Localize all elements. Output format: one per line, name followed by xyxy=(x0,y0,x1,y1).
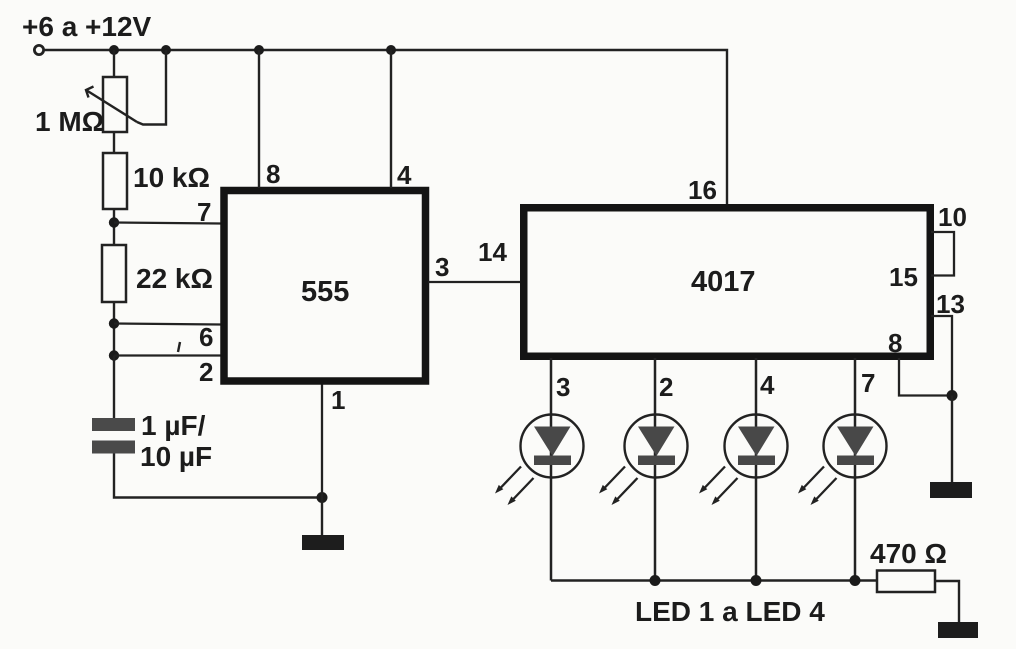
wire R2 to node7 xyxy=(113,209,115,246)
svg-text:8: 8 xyxy=(266,159,280,189)
svg-text:470 Ω: 470 Ω xyxy=(870,538,947,569)
svg-text:1: 1 xyxy=(331,385,345,415)
op: IC1 555 box xyxy=(224,191,426,382)
svg-text:15: 15 xyxy=(889,262,918,292)
svg-text:8: 8 xyxy=(888,328,902,358)
LED D3 xyxy=(699,358,788,581)
junction node2 xyxy=(109,350,119,360)
junction pin4 xyxy=(386,45,396,55)
wire C1 to ground node xyxy=(114,454,322,498)
ground GND2 xyxy=(930,482,972,498)
wire node2 to C1 xyxy=(113,356,115,420)
svg-text:13: 13 xyxy=(936,289,965,319)
svg-text:14: 14 xyxy=(478,237,507,267)
svg-text:10: 10 xyxy=(938,202,967,232)
junction bus-LED3 xyxy=(751,575,762,586)
wire node to ground2 xyxy=(951,396,953,485)
svg-text:3: 3 xyxy=(556,372,570,402)
LED2 arrow a xyxy=(599,467,625,494)
wire rail to potentiometer xyxy=(113,50,115,78)
svg-text:16: 16 xyxy=(688,175,717,205)
LED D1 xyxy=(495,358,584,581)
LED4 arrow b xyxy=(811,478,837,505)
wire node7 to 555 pin7 xyxy=(114,223,221,224)
LED D2 xyxy=(599,358,688,581)
svg-text:7: 7 xyxy=(197,197,211,227)
junction pin8 xyxy=(254,45,264,55)
pin 13 stub xyxy=(931,316,952,396)
wire R3 to node6 xyxy=(113,302,115,356)
svg-text:+6 a +12V: +6 a +12V xyxy=(22,11,152,42)
junction node6 xyxy=(109,318,119,328)
wire node to ground1 xyxy=(321,498,323,538)
junction node-gnd1 xyxy=(317,492,328,503)
LED4 circle xyxy=(824,415,887,478)
wire pin7 through LED4 xyxy=(854,358,857,581)
tick mark xyxy=(178,342,180,352)
capacitor C1 bottom plate xyxy=(92,441,135,454)
junction bus-LED4 xyxy=(850,575,861,586)
wire node2 to 555 pin2 xyxy=(114,354,221,356)
LED4 arrow a xyxy=(798,467,824,494)
svg-text:4: 4 xyxy=(397,160,412,190)
svg-text:555: 555 xyxy=(301,276,349,308)
LED4 triangle xyxy=(837,427,874,457)
junction node7 xyxy=(109,217,119,227)
svg-text:2: 2 xyxy=(199,357,213,387)
resistor R2 10 kΩ xyxy=(103,153,127,209)
wire 4017 pin8 to node xyxy=(899,358,952,396)
wire R4 to ground3 xyxy=(935,581,959,624)
svg-text:2: 2 xyxy=(659,372,673,402)
svg-text:10 kΩ: 10 kΩ xyxy=(133,162,210,193)
LED2 triangle xyxy=(638,427,675,457)
LED3 circle xyxy=(725,415,788,478)
wire 555 pin8 xyxy=(258,50,260,188)
svg-text:4017: 4017 xyxy=(691,266,756,298)
svg-text:7: 7 xyxy=(861,368,875,398)
potentiometer wiper arrow xyxy=(86,87,137,123)
svg-text:6: 6 xyxy=(199,322,213,352)
IC2 4017 box xyxy=(524,208,931,357)
pin 10-15 stub xyxy=(931,232,954,276)
junction bus-LED2 xyxy=(650,575,661,586)
LED1 arrow a xyxy=(495,467,521,494)
wire pin2 through LED2 xyxy=(654,358,657,581)
potentiometer P1 1 MΩ body xyxy=(103,77,127,132)
LED3 arrow a xyxy=(699,467,725,494)
wire 555 pin1 down xyxy=(321,384,323,498)
junction wiper xyxy=(161,45,171,55)
svg-text:10 µF: 10 µF xyxy=(140,441,212,472)
capacitor C1 top plate xyxy=(92,418,135,431)
svg-text:4: 4 xyxy=(760,370,775,400)
svg-text:1 MΩ: 1 MΩ xyxy=(35,106,104,137)
LED1 arrow b xyxy=(508,478,534,505)
LED4 cathode bar xyxy=(837,456,874,466)
LED1 circle xyxy=(521,415,584,478)
svg-text:1 µF/: 1 µF/ xyxy=(141,410,206,441)
junction pot-top xyxy=(109,45,119,55)
ground GND3 xyxy=(938,622,978,638)
wire pin3 through LED1 xyxy=(550,358,553,581)
wire LED bus xyxy=(551,579,878,582)
wire 555 pin4 xyxy=(390,50,392,188)
svg-text:3: 3 xyxy=(435,252,449,282)
LED1 triangle xyxy=(534,427,571,457)
svg-text:22 kΩ: 22 kΩ xyxy=(136,263,213,294)
LED3 triangle xyxy=(738,427,775,457)
LED2 circle xyxy=(625,415,688,478)
LED3 arrow b xyxy=(712,478,738,505)
junction node13-8 xyxy=(947,390,958,401)
wire 555 pin3 to 4017 pin14 xyxy=(428,281,522,283)
svg-text:LED 1 a LED 4: LED 1 a LED 4 xyxy=(635,596,825,627)
LED3 cathode bar xyxy=(738,456,775,466)
LED D4 xyxy=(798,358,887,581)
resistor R3 22 kΩ xyxy=(102,245,126,302)
LED1 cathode bar xyxy=(534,456,571,466)
LED2 cathode bar xyxy=(638,456,675,466)
terminal V+ xyxy=(34,45,43,54)
wire top rail xyxy=(44,50,727,204)
wire node6 to 555 pin6 xyxy=(114,324,221,325)
wire pot to R2 xyxy=(113,132,115,154)
ground GND1 xyxy=(302,535,344,550)
wire pin4 through LED3 xyxy=(755,358,758,581)
resistor R4 470 Ω xyxy=(877,571,935,593)
wire wiper to rail xyxy=(137,50,166,125)
LED2 arrow b xyxy=(612,478,638,505)
